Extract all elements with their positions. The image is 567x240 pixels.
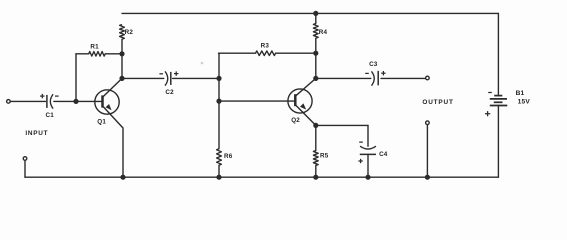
svg-text:INPUT: INPUT — [25, 130, 48, 137]
svg-text:OUTPUT: OUTPUT — [422, 99, 453, 106]
svg-text:C2: C2 — [165, 89, 174, 96]
svg-text:C1: C1 — [45, 112, 54, 119]
svg-text:Q1: Q1 — [97, 118, 106, 125]
svg-text:Q2: Q2 — [291, 117, 300, 124]
svg-text:R3: R3 — [261, 42, 270, 49]
svg-text:R2: R2 — [125, 29, 134, 36]
svg-text:R6: R6 — [224, 153, 233, 160]
svg-text:C3: C3 — [369, 61, 378, 68]
svg-text:R5: R5 — [320, 152, 329, 159]
svg-text:B1: B1 — [516, 90, 525, 97]
svg-text:R4: R4 — [319, 29, 328, 36]
svg-text:R1: R1 — [90, 43, 99, 50]
svg-text:C4: C4 — [379, 151, 388, 158]
svg-text:15V: 15V — [518, 99, 531, 106]
